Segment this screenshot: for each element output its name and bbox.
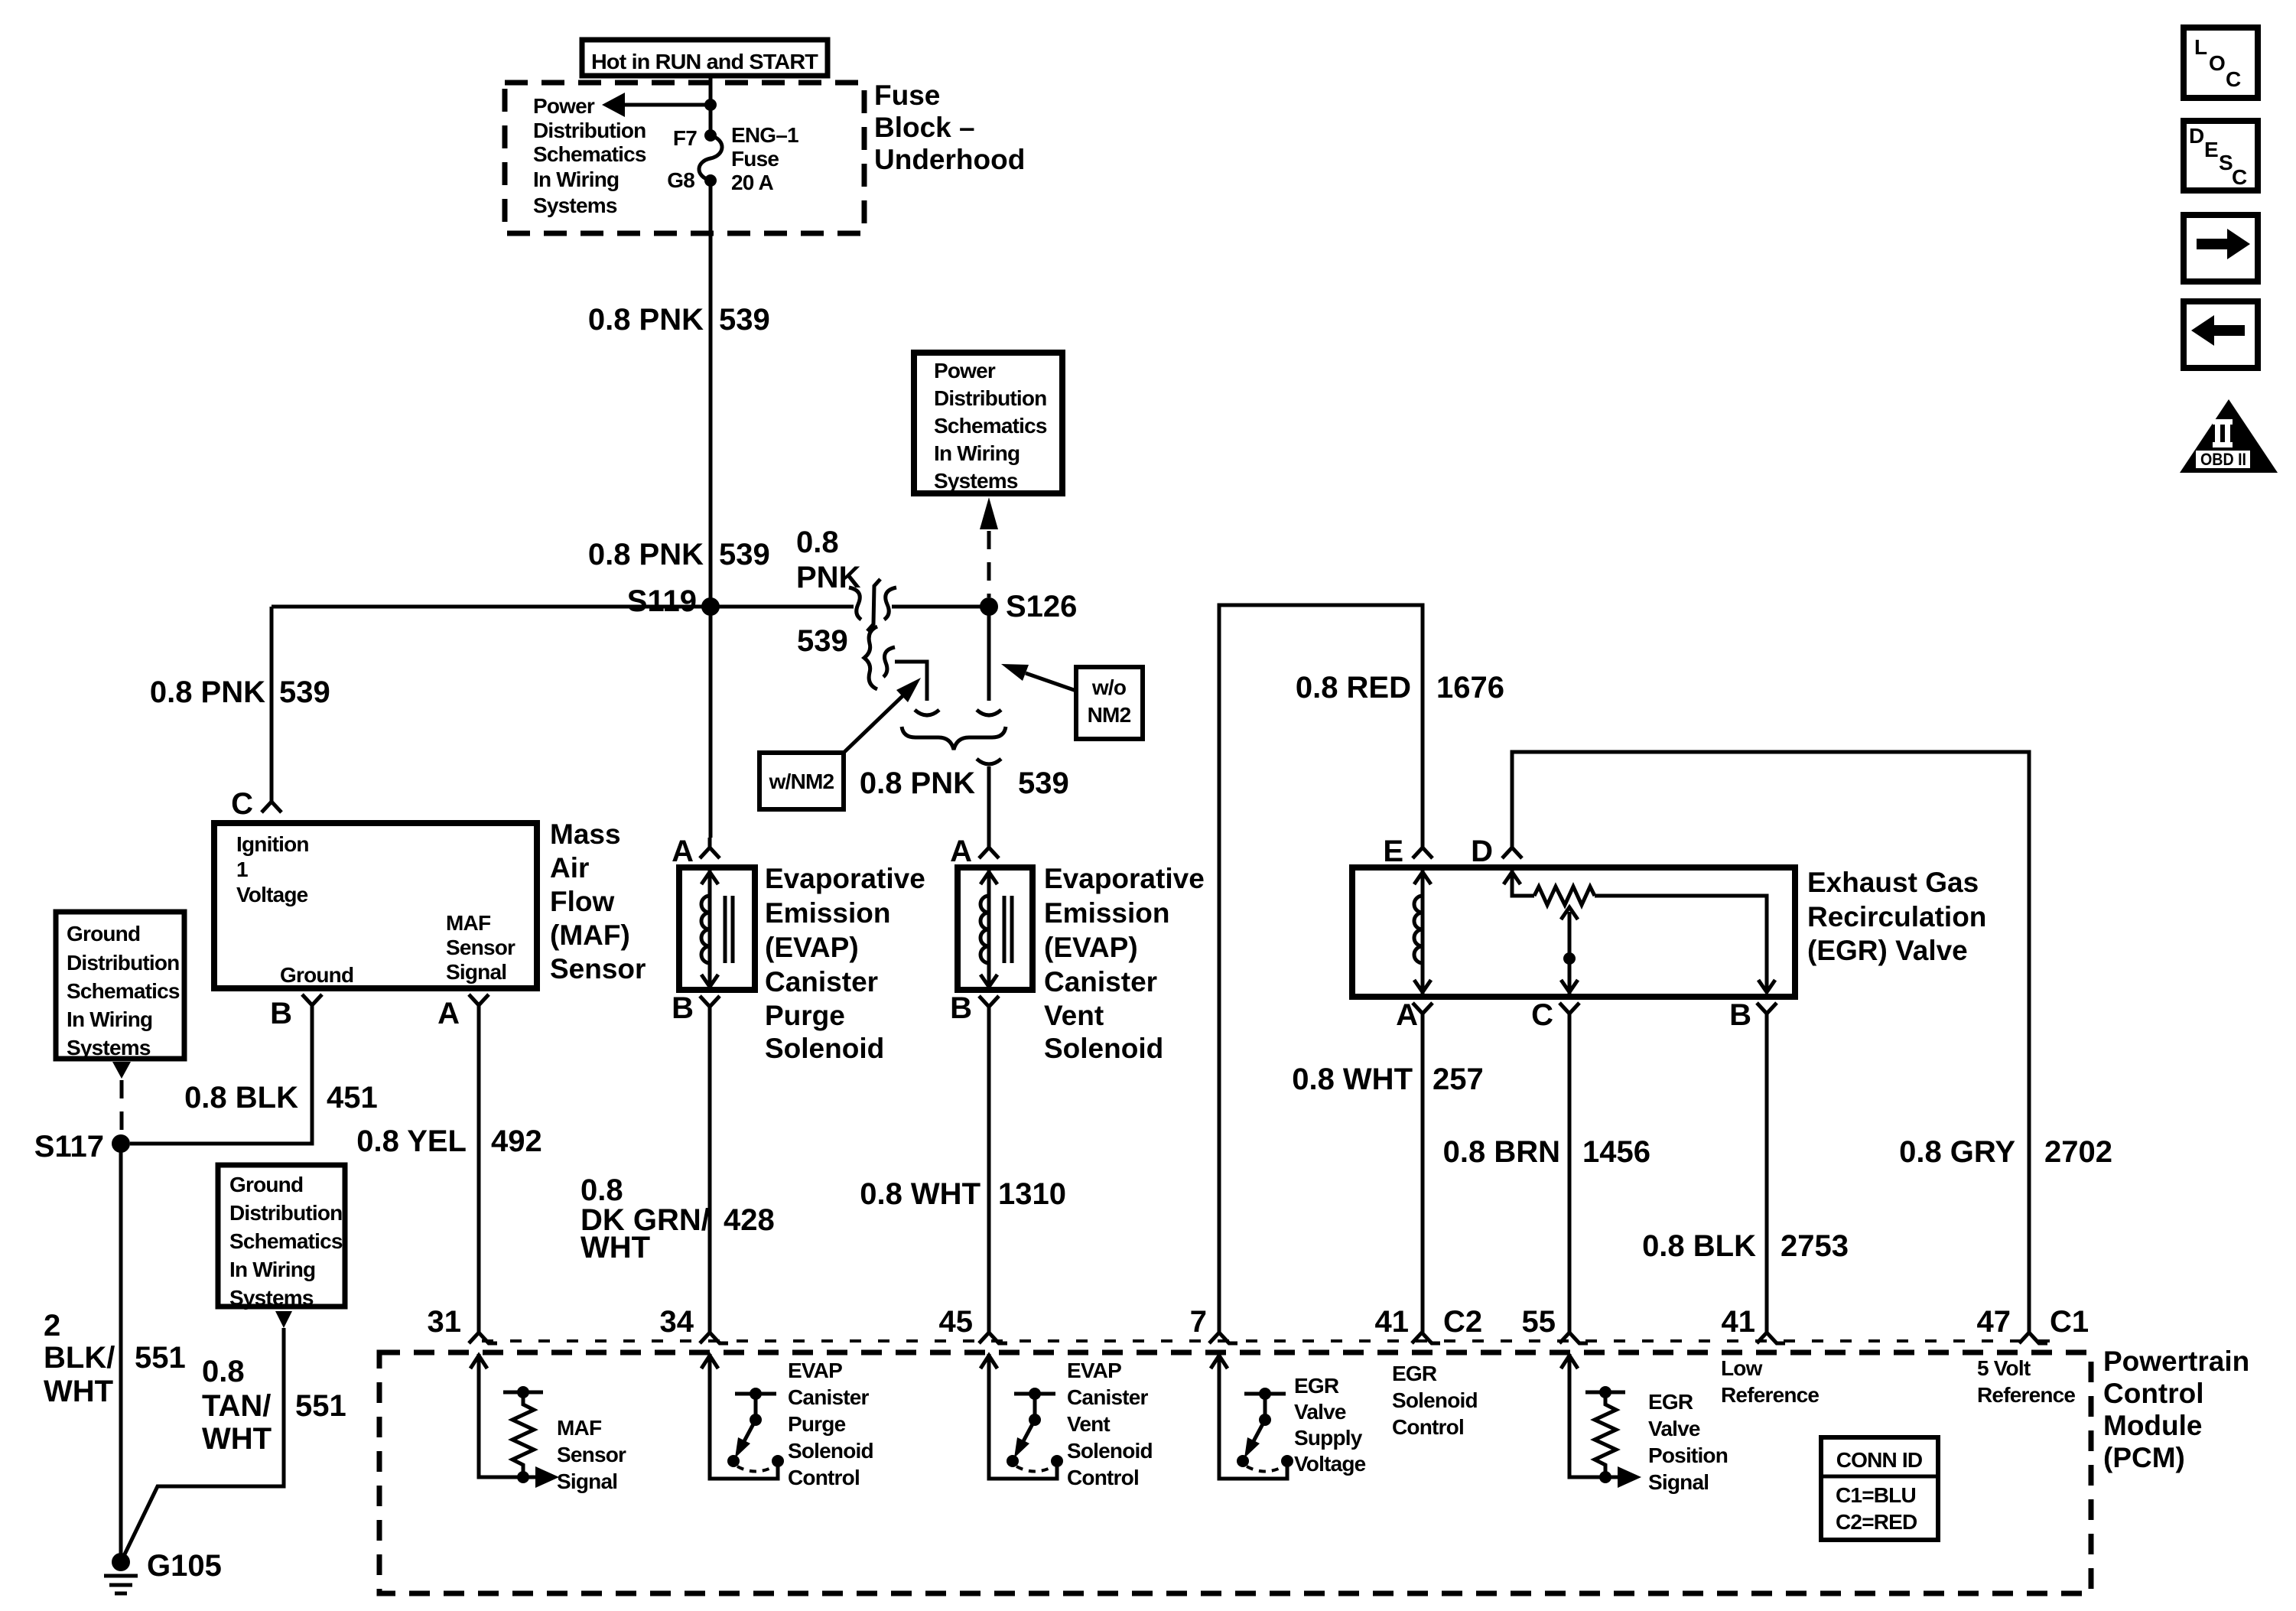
- svg-text:Recirculation: Recirculation: [1807, 901, 1986, 932]
- wire: battery feed into fuse: [709, 76, 713, 135]
- svg-text:0.8: 0.8: [581, 1173, 623, 1207]
- wire: ignition feed bus: [272, 605, 854, 609]
- svg-text:Voltage: Voltage: [236, 883, 308, 906]
- svg-text:WHT: WHT: [202, 1422, 272, 1456]
- svg-text:Systems: Systems: [533, 194, 617, 217]
- svg-text:EGR: EGR: [1392, 1362, 1437, 1385]
- svg-text:Position: Position: [1648, 1443, 1728, 1467]
- svg-text:Reference: Reference: [1977, 1383, 2075, 1407]
- wire: 0.8 BLK 2753: [1765, 1023, 1769, 1333]
- svg-text:Underhood: Underhood: [874, 144, 1025, 175]
- svg-text:Schematics: Schematics: [229, 1229, 343, 1253]
- wire: 0.8 RED 1676 (PCM 7 -> EGR E): [1219, 605, 1423, 1333]
- svg-text:0.8 GRY: 0.8 GRY: [1899, 1135, 2015, 1169]
- svg-text:5 Volt: 5 Volt: [1977, 1356, 2031, 1380]
- svg-text:Block –: Block –: [874, 112, 975, 143]
- svg-text:257: 257: [1433, 1063, 1484, 1096]
- svg-text:S126: S126: [1006, 590, 1077, 623]
- svg-text:Supply: Supply: [1294, 1426, 1363, 1450]
- svg-text:Solenoid: Solenoid: [765, 1033, 884, 1064]
- svg-text:EGR: EGR: [1648, 1390, 1693, 1414]
- svg-text:MAF: MAF: [446, 911, 491, 935]
- purge pin B: [700, 996, 720, 1016]
- wire: 2 BLK/WHT 551 to G105: [119, 1144, 123, 1562]
- svg-text:0.8 BLK: 0.8 BLK: [1642, 1229, 1756, 1263]
- svg-text:Solenoid: Solenoid: [1044, 1033, 1163, 1064]
- icon: arrow left: [2184, 301, 2258, 368]
- wire: 0.8 WHT 257: [1421, 1023, 1425, 1333]
- svg-text:EVAP: EVAP: [788, 1359, 842, 1382]
- svg-text:C2=RED: C2=RED: [1836, 1510, 1917, 1534]
- svg-text:BLK/: BLK/: [44, 1341, 115, 1375]
- vent pin A: [979, 838, 999, 858]
- svg-text:Signal: Signal: [1648, 1470, 1709, 1494]
- svg-text:O: O: [2209, 51, 2225, 75]
- svg-text:(PCM): (PCM): [2103, 1442, 2185, 1473]
- svg-text:(EGR) Valve: (EGR) Valve: [1807, 935, 1968, 966]
- svg-text:Control: Control: [788, 1466, 860, 1489]
- svg-text:Fuse: Fuse: [731, 147, 779, 171]
- svg-text:C: C: [231, 787, 253, 821]
- ground symbol G105: [112, 1553, 130, 1571]
- svg-text:Distribution: Distribution: [229, 1201, 343, 1225]
- svg-text:B: B: [672, 991, 694, 1025]
- svg-text:34: 34: [660, 1305, 694, 1339]
- svg-text:Exhaust Gas: Exhaust Gas: [1807, 867, 1979, 898]
- svg-text:0.8 YEL: 0.8 YEL: [356, 1124, 467, 1158]
- pin 41 C2: [1412, 1333, 1440, 1343]
- svg-text:1456: 1456: [1582, 1135, 1650, 1169]
- svg-text:A: A: [672, 835, 694, 868]
- svg-text:539: 539: [797, 624, 848, 658]
- svg-text:0.8 PNK: 0.8 PNK: [150, 675, 265, 709]
- svg-text:31: 31: [428, 1305, 462, 1339]
- svg-text:539: 539: [719, 303, 770, 337]
- svg-text:D: D: [2189, 124, 2204, 148]
- component: EVAP canister purge solenoid: [679, 867, 755, 990]
- svg-text:539: 539: [279, 675, 330, 709]
- svg-text:Evaporative: Evaporative: [1044, 863, 1205, 894]
- svg-text:41: 41: [1722, 1305, 1756, 1339]
- svg-text:C: C: [2226, 67, 2241, 91]
- svg-text:Distribution: Distribution: [533, 119, 646, 142]
- svg-text:A: A: [950, 835, 972, 868]
- svg-text:WHT: WHT: [44, 1375, 113, 1408]
- pin 41: [1757, 1333, 1785, 1343]
- svg-text:Mass: Mass: [550, 819, 621, 850]
- svg-text:Valve: Valve: [1648, 1417, 1700, 1440]
- svg-text:PNK: PNK: [796, 561, 861, 594]
- svg-text:Systems: Systems: [67, 1036, 151, 1059]
- wire: arrow to power distribution: [621, 103, 711, 107]
- fuse block underhood (dashed box): [505, 83, 864, 233]
- svg-text:Powertrain: Powertrain: [2103, 1346, 2249, 1377]
- svg-text:EVAP: EVAP: [1067, 1359, 1121, 1382]
- svg-text:Module: Module: [2103, 1410, 2202, 1441]
- purge solenoid coil: [708, 871, 712, 987]
- wire: 0.8 YEL 492 MAF signal: [477, 1014, 481, 1333]
- svg-text:Signal: Signal: [446, 960, 506, 984]
- svg-text:Purge: Purge: [765, 1000, 845, 1031]
- node: ground distribution box (lower): [218, 1165, 345, 1307]
- svg-text:Ground: Ground: [229, 1173, 303, 1196]
- component: EGR valve: [1352, 867, 1795, 997]
- svg-text:Canister: Canister: [1044, 966, 1157, 998]
- svg-text:A: A: [1396, 998, 1418, 1032]
- svg-text:Canister: Canister: [1067, 1385, 1149, 1409]
- node S117: [112, 1134, 130, 1153]
- MAF pin A: [469, 994, 489, 1014]
- svg-text:(EVAP): (EVAP): [765, 932, 859, 963]
- wire: w/NM2 jumper: [895, 662, 927, 701]
- node: w/o NM2 callout: [1076, 667, 1143, 739]
- svg-text:CONN ID: CONN ID: [1836, 1448, 1923, 1472]
- CONN ID table: [1821, 1437, 1938, 1540]
- svg-text:Hot in RUN and START: Hot in RUN and START: [591, 50, 818, 73]
- svg-text:Voltage: Voltage: [1294, 1452, 1366, 1476]
- node: power distribution schematics box: [914, 353, 1062, 493]
- svg-text:0.8: 0.8: [796, 526, 839, 559]
- svg-text:Schematics: Schematics: [533, 142, 646, 166]
- svg-text:Valve: Valve: [1294, 1400, 1346, 1424]
- svg-text:451: 451: [327, 1081, 378, 1115]
- node S126: [980, 597, 998, 616]
- svg-text:C2: C2: [1443, 1305, 1482, 1339]
- svg-text:MAF: MAF: [557, 1416, 602, 1440]
- svg-text:Low: Low: [1721, 1356, 1763, 1380]
- svg-text:Sensor: Sensor: [550, 953, 646, 984]
- wire: 0.8 DK GRN/WHT 428: [708, 1016, 712, 1333]
- svg-text:0.8 PNK: 0.8 PNK: [588, 538, 704, 571]
- svg-text:Emission: Emission: [1044, 897, 1170, 929]
- svg-text:Systems: Systems: [229, 1286, 314, 1310]
- component: Powertrain Control Module (PCM) dashed box: [379, 1352, 2091, 1593]
- pin 45: [979, 1333, 1007, 1343]
- wire: S126 down: [987, 607, 991, 701]
- wire: 0.8 PNK 539 to MAF ignition: [270, 607, 274, 792]
- MAF pin B: [302, 994, 322, 1014]
- wire: [892, 605, 989, 609]
- EGR pin C: [1559, 1003, 1579, 1023]
- wire: [989, 1354, 1057, 1479]
- svg-text:C: C: [2232, 165, 2247, 189]
- EGR wiper: [1568, 912, 1572, 994]
- wire: 0.8 BRN 1456: [1568, 1023, 1572, 1333]
- wire: 0.8 PNK 539 fuse output down to S119: [709, 181, 713, 607]
- svg-text:C1: C1: [2050, 1305, 2089, 1339]
- purge pin A: [700, 838, 720, 858]
- svg-text:45: 45: [939, 1305, 974, 1339]
- svg-text:WHT: WHT: [581, 1231, 650, 1264]
- svg-text:0.8: 0.8: [202, 1355, 245, 1388]
- svg-text:Control: Control: [2103, 1378, 2204, 1409]
- svg-text:Solenoid: Solenoid: [788, 1439, 873, 1463]
- svg-text:2702: 2702: [2044, 1135, 2112, 1169]
- svg-text:551: 551: [135, 1341, 186, 1375]
- connector alternate w/NM2 squiggles: [864, 626, 877, 689]
- svg-text:1310: 1310: [998, 1177, 1066, 1211]
- node: w/NM2 callout: [759, 753, 844, 809]
- svg-text:G105: G105: [147, 1549, 222, 1583]
- svg-text:B: B: [950, 991, 972, 1025]
- svg-text:428: 428: [724, 1203, 775, 1237]
- svg-text:(MAF): (MAF): [550, 919, 630, 951]
- svg-text:Systems: Systems: [934, 469, 1018, 493]
- svg-text:w/NM2: w/NM2: [769, 770, 834, 793]
- fuse F7/G8 ENG-1 20A: [704, 129, 717, 142]
- svg-text:Distribution: Distribution: [934, 386, 1047, 410]
- node: ground distribution box (upper): [56, 912, 184, 1059]
- svg-text:E: E: [1383, 835, 1403, 868]
- MAF pin C: [262, 792, 281, 812]
- icon: LOC: [2184, 28, 2258, 98]
- EGR pin E: [1413, 838, 1433, 858]
- svg-text:L: L: [2194, 35, 2207, 59]
- svg-text:Solenoid: Solenoid: [1392, 1388, 1478, 1412]
- svg-text:Signal: Signal: [557, 1469, 617, 1493]
- node S119: [701, 597, 720, 616]
- svg-text:2753: 2753: [1781, 1229, 1849, 1263]
- svg-text:Solenoid: Solenoid: [1067, 1439, 1153, 1463]
- svg-text:C: C: [1531, 998, 1553, 1032]
- svg-text:E: E: [2204, 138, 2218, 161]
- wire: 0.8 GRY 2702 (EGR D -> PCM 47): [1512, 752, 2029, 1333]
- vent solenoid coil: [987, 871, 991, 987]
- svg-text:0.8 RED: 0.8 RED: [1296, 671, 1411, 705]
- svg-text:Distribution: Distribution: [67, 951, 180, 975]
- svg-text:551: 551: [295, 1389, 346, 1423]
- svg-text:Ground: Ground: [67, 922, 140, 945]
- svg-text:D: D: [1471, 835, 1493, 868]
- wire: 0.8 PNK 539 to EVAP purge: [709, 607, 713, 838]
- pin 31: [469, 1333, 497, 1343]
- svg-text:Vent: Vent: [1067, 1412, 1110, 1436]
- svg-text:B: B: [270, 997, 292, 1030]
- svg-text:0.8 PNK: 0.8 PNK: [588, 303, 704, 337]
- svg-text:Evaporative: Evaporative: [765, 863, 925, 894]
- svg-text:Power: Power: [934, 359, 996, 382]
- svg-text:Ignition: Ignition: [236, 832, 309, 856]
- svg-text:Reference: Reference: [1721, 1383, 1819, 1407]
- svg-text:Ground: Ground: [280, 963, 353, 987]
- EGR pin A: [1413, 1003, 1433, 1023]
- svg-text:55: 55: [1522, 1305, 1556, 1339]
- EGR pin D: [1502, 838, 1522, 858]
- svg-text:492: 492: [491, 1124, 542, 1158]
- pin 55: [1559, 1333, 1588, 1343]
- svg-text:Schematics: Schematics: [67, 979, 180, 1003]
- icon: DESC: [2184, 121, 2258, 190]
- vent pin B: [979, 996, 999, 1016]
- svg-text:G8: G8: [667, 168, 694, 192]
- wire: [479, 1354, 537, 1477]
- svg-text:0.8 PNK: 0.8 PNK: [860, 766, 975, 800]
- svg-text:Control: Control: [1392, 1415, 1464, 1439]
- svg-text:Canister: Canister: [788, 1385, 870, 1409]
- wire: [710, 1354, 778, 1479]
- svg-text:Sensor: Sensor: [557, 1443, 626, 1466]
- svg-text:Sensor: Sensor: [446, 936, 515, 959]
- svg-text:20 A: 20 A: [731, 171, 773, 194]
- wire: [1569, 1354, 1619, 1477]
- svg-text:S: S: [2219, 151, 2233, 174]
- wire: 0.8 TAN/WHT 551: [275, 1311, 292, 1328]
- svg-text:539: 539: [719, 538, 770, 571]
- svg-text:2: 2: [44, 1309, 60, 1342]
- in-line connector symbols: [849, 587, 861, 620]
- svg-text:0.8 WHT: 0.8 WHT: [860, 1177, 981, 1211]
- svg-text:7: 7: [1190, 1305, 1207, 1339]
- svg-text:Vent: Vent: [1044, 1000, 1104, 1031]
- svg-text:0.8 WHT: 0.8 WHT: [1292, 1063, 1413, 1096]
- svg-text:TAN/: TAN/: [202, 1389, 271, 1423]
- svg-text:Canister: Canister: [765, 966, 878, 998]
- svg-text:S119: S119: [627, 584, 697, 618]
- svg-text:0.8 BLK: 0.8 BLK: [184, 1081, 298, 1115]
- wire: 0.8 BLK 451 ground: [130, 1014, 312, 1144]
- icon: OBD II triangle: [2180, 399, 2278, 473]
- pin 47 C1: [2019, 1333, 2047, 1343]
- component: EVAP canister vent solenoid: [958, 867, 1033, 990]
- svg-text:In Wiring: In Wiring: [229, 1258, 315, 1281]
- connector row dashed line: [482, 1339, 2050, 1342]
- svg-text:NM2: NM2: [1088, 703, 1131, 727]
- svg-text:Air: Air: [550, 852, 589, 884]
- svg-text:Fuse: Fuse: [874, 80, 940, 111]
- svg-text:Flow: Flow: [550, 886, 614, 917]
- svg-text:41: 41: [1375, 1305, 1410, 1339]
- svg-text:B: B: [1729, 998, 1751, 1032]
- EGR potentiometer: [1512, 871, 1534, 896]
- svg-text:Emission: Emission: [765, 897, 891, 929]
- svg-text:Schematics: Schematics: [934, 414, 1047, 438]
- node: Hot in RUN and START feed box: [582, 40, 828, 76]
- svg-text:Control: Control: [1067, 1466, 1139, 1489]
- EGR solenoid coil E-A: [1421, 871, 1425, 994]
- icon: arrow right: [2184, 215, 2258, 282]
- svg-text:539: 539: [1018, 766, 1069, 800]
- svg-text:EGR: EGR: [1294, 1374, 1339, 1398]
- svg-text:1: 1: [236, 858, 248, 881]
- svg-text:C1=BLU: C1=BLU: [1836, 1483, 1916, 1507]
- svg-text:OBD II: OBD II: [2200, 450, 2246, 469]
- svg-text:In Wiring: In Wiring: [67, 1007, 152, 1031]
- svg-text:Purge: Purge: [788, 1412, 846, 1436]
- svg-text:Power: Power: [533, 94, 595, 118]
- wire: [1219, 1354, 1287, 1479]
- svg-text:In Wiring: In Wiring: [533, 168, 619, 191]
- svg-text:0.8 BRN: 0.8 BRN: [1443, 1135, 1560, 1169]
- svg-text:S117: S117: [34, 1130, 104, 1163]
- svg-text:A: A: [437, 997, 460, 1030]
- EGR pin B: [1757, 1003, 1777, 1023]
- wire: dashed off-page to S117: [112, 1062, 131, 1079]
- wire: dashed to S126 with up arrow: [980, 497, 998, 529]
- wire: 0.8 WHT 1310: [987, 1016, 991, 1333]
- component: Mass Air Flow (MAF) Sensor: [214, 823, 537, 988]
- svg-text:(EVAP): (EVAP): [1044, 932, 1138, 963]
- svg-text:In Wiring: In Wiring: [934, 441, 1020, 465]
- svg-text:ENG–1: ENG–1: [731, 123, 798, 147]
- svg-text:1676: 1676: [1436, 671, 1504, 705]
- pin 7: [1209, 1333, 1237, 1343]
- svg-text:F7: F7: [673, 126, 697, 150]
- pin 34: [700, 1333, 728, 1343]
- horizontal brace: [902, 727, 1006, 750]
- svg-text:47: 47: [1977, 1305, 2011, 1339]
- svg-text:w/o: w/o: [1091, 675, 1127, 699]
